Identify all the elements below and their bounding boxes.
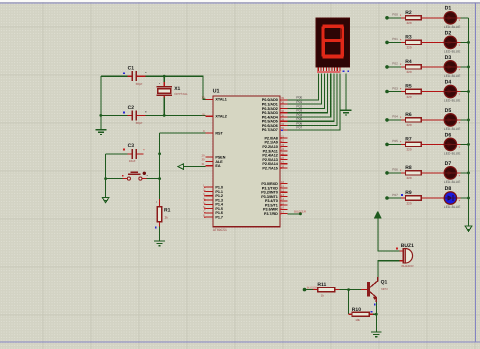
svg-text:P05: P05 (392, 139, 398, 143)
svg-text:220: 220 (407, 176, 412, 180)
svg-text:10uF: 10uF (129, 159, 136, 163)
wire +5V to BUZ1 top pin (378, 218, 400, 251)
wire D7 to rail (460, 172, 468, 174)
wire Q1 emitter to ground (375, 302, 377, 332)
svg-text:D5: D5 (445, 108, 452, 114)
svg-text:U1: U1 (213, 89, 220, 95)
wire BUZ1 bottom pin to Q1 collector (378, 261, 400, 278)
LED D3 LED-BLUE (441, 55, 461, 78)
svg-text:220: 220 (407, 201, 412, 205)
node terminal P01 (385, 41, 389, 45)
crystal X1 (156, 76, 188, 115)
wire R8 to D7 (pin leads) (421, 172, 444, 174)
svg-text:220: 220 (407, 46, 412, 50)
svg-text:P06: P06 (392, 168, 398, 172)
resistor R7 220 (401, 136, 421, 151)
wire R6 to D5 (pin leads) (421, 119, 444, 121)
svg-text:Q1: Q1 (381, 279, 388, 285)
U1 left pins (201, 96, 226, 220)
transistor Q1 NPN (361, 277, 388, 313)
svg-text:RST: RST (215, 131, 223, 135)
wire junction down to R10 (348, 290, 350, 315)
wire net RST: vertical chain to U1 RST (160, 132, 206, 134)
svg-text:10k: 10k (355, 318, 360, 322)
LED D6 LED-BLUE (441, 132, 461, 155)
svg-text:R6: R6 (405, 112, 412, 118)
wire row P05 net (387, 143, 401, 145)
wires display segments to U1 P0 bus (288, 73, 340, 129)
node rail junction (467, 119, 470, 122)
wire D1 to rail (460, 17, 468, 19)
svg-text:17: 17 (281, 210, 285, 214)
resistor R11 1k (305, 282, 340, 297)
node junction switch right (158, 177, 161, 180)
svg-text:31: 31 (201, 162, 205, 166)
svg-text:C2: C2 (128, 105, 135, 111)
node terminal P03 (385, 90, 389, 94)
svg-text:D1: D1 (445, 6, 452, 12)
svg-text:R10: R10 (352, 307, 361, 313)
node junction C1/X1 top (163, 75, 166, 78)
svg-text:220: 220 (407, 95, 412, 99)
wire EA to ground arrow (left) (184, 166, 206, 168)
buzzer BUZ1 (396, 243, 414, 268)
svg-text:220: 220 (407, 21, 412, 25)
wire row P04 net (387, 119, 401, 121)
push-button switch (reset) (106, 172, 160, 181)
svg-text:LED-BLUE: LED-BLUE (444, 180, 461, 184)
svg-text:D6: D6 (445, 132, 452, 138)
svg-text:P01: P01 (392, 37, 398, 41)
svg-text:30pF: 30pF (136, 121, 143, 125)
node terminal P06 (385, 171, 389, 175)
svg-text:R5: R5 (405, 84, 412, 90)
wire R5 to D4 (pin leads) (421, 91, 444, 93)
wire R4 to D3 (pin leads) (421, 66, 444, 68)
node rail junction (467, 143, 470, 146)
ground (earth) below Q1 (371, 332, 382, 337)
svg-text:AT89C51: AT89C51 (213, 228, 227, 232)
node junction switch left (104, 177, 107, 180)
svg-text:XTAL2: XTAL2 (215, 115, 226, 119)
svg-text:220: 220 (407, 70, 412, 74)
svg-text:R2: R2 (405, 10, 412, 16)
resistor R1 2k (vertical) (155, 199, 171, 241)
svg-text:EA: EA (215, 164, 220, 168)
wire row P00 net (387, 17, 401, 19)
ground (earth) below C1/C2 (96, 130, 107, 135)
node terminal P02 (385, 65, 389, 69)
node terminal P04 (385, 118, 389, 122)
node blue markers below display (343, 70, 345, 72)
svg-text:R9: R9 (405, 190, 412, 196)
svg-text:BUZZER: BUZZER (294, 210, 307, 214)
svg-text:P00: P00 (392, 13, 398, 17)
LED D7 LED-BLUE (441, 161, 461, 184)
LED D5 LED-BLUE (441, 108, 461, 131)
resistor R10 10k (349, 307, 377, 322)
power +5V arrow (up) (374, 212, 381, 219)
resistor R6 220 (401, 112, 421, 127)
wire P3.7 to BUZZER net label (288, 213, 301, 215)
svg-text:R7: R7 (405, 136, 412, 142)
svg-text:R3: R3 (405, 34, 412, 40)
node rail junction (467, 197, 470, 200)
wire row P07 net (387, 197, 401, 199)
LED D8 LED-BLUE (441, 186, 461, 209)
svg-text:1k: 1k (321, 293, 325, 297)
ground (earth) below display (341, 110, 352, 115)
ground arrow (down) left (102, 197, 109, 202)
svg-text:D2: D2 (445, 30, 452, 36)
wire R2 to D1 (pin leads) (421, 17, 444, 19)
svg-text:BUZZER: BUZZER (307, 286, 318, 289)
svg-text:BUZ1: BUZ1 (401, 243, 414, 249)
capacitor C2 30pF (123, 105, 146, 125)
svg-text:LED-BLUE: LED-BLUE (444, 50, 461, 54)
wire left vertical C3/switch to ground arrow (105, 154, 107, 198)
wire base net: R11 to Q1 base (339, 289, 361, 291)
svg-text:P07: P07 (296, 126, 302, 130)
svg-text:LED-BLUE: LED-BLUE (444, 127, 461, 131)
svg-text:P04: P04 (392, 115, 398, 119)
wire D8 to rail (460, 197, 468, 199)
node rail junction (467, 66, 470, 69)
wire right rail (LED cathodes) (468, 18, 470, 226)
svg-text:220: 220 (407, 123, 412, 127)
resistor R8 220 (401, 165, 421, 180)
node blue marker at P0.7 pin (281, 129, 283, 131)
node rail junction (467, 172, 470, 175)
wire R7 to D6 (pin leads) (421, 143, 444, 145)
node terminal P07 (385, 196, 389, 200)
svg-text:30pF: 30pF (136, 82, 143, 86)
svg-text:LED-BLUE: LED-BLUE (444, 205, 461, 209)
wire net XTAL2: C2 row to U1 XTAL2 (101, 114, 206, 116)
svg-text:18: 18 (201, 113, 205, 117)
svg-text:P02: P02 (392, 62, 398, 66)
svg-text:CRYSTAL: CRYSTAL (174, 92, 188, 96)
wire D2 to rail (460, 41, 468, 43)
svg-text:P3.7/RD: P3.7/RD (264, 212, 278, 216)
wire R9 to D8 (pin leads) (421, 197, 444, 199)
LED D1 LED-BLUE (441, 6, 461, 29)
svg-text:D3: D3 (445, 55, 452, 61)
svg-text:XTAL1: XTAL1 (215, 98, 226, 102)
node terminal P05 (385, 143, 389, 147)
wire D4 to rail (460, 91, 468, 93)
ground (earth) below R1 (154, 241, 165, 246)
wire row P02 net (387, 66, 401, 68)
wire row P06 net (387, 172, 401, 174)
node junction emitter/R10 (375, 313, 378, 316)
svg-text:220: 220 (407, 148, 412, 152)
ground arrow (left) at EA (178, 164, 184, 170)
node junction R11/R10 (347, 288, 350, 291)
svg-text:C3: C3 (128, 143, 135, 149)
wire D6 to rail (460, 143, 468, 145)
wire R3 to D2 (pin leads) (421, 41, 444, 43)
svg-text:D8: D8 (445, 186, 452, 192)
ground arrow (down) right rail (465, 226, 472, 231)
resistor R4 220 (401, 59, 421, 74)
node rail junction (467, 90, 470, 93)
svg-text:LED-BLUE: LED-BLUE (444, 74, 461, 78)
svg-text:LED-BLUE: LED-BLUE (444, 152, 461, 156)
node terminal R11 left (303, 288, 307, 292)
svg-text:D4: D4 (445, 79, 452, 85)
svg-text:P07: P07 (392, 193, 398, 197)
svg-text:R4: R4 (405, 59, 412, 65)
node terminal P00 (385, 16, 389, 20)
svg-text:R11: R11 (317, 282, 326, 288)
svg-text:R8: R8 (405, 165, 412, 171)
resistor R5 220 (401, 84, 421, 99)
wire net XTAL1: C1 row to U1 XTAL1 (101, 76, 206, 99)
wire D3 to rail (460, 66, 468, 68)
U1 body (213, 96, 280, 227)
svg-text:LED-BLUE: LED-BLUE (444, 25, 461, 29)
svg-text:2k: 2k (165, 216, 169, 220)
svg-text:R1: R1 (164, 207, 171, 213)
wire D5 to rail (460, 119, 468, 121)
node rail junction (467, 41, 470, 44)
svg-text:C1: C1 (128, 66, 135, 72)
wire left vertical to ground (100, 76, 102, 129)
capacitor C1 30pF (123, 66, 146, 86)
svg-text:BUZZER: BUZZER (402, 264, 415, 268)
resistor R9 220 (401, 190, 421, 205)
wire display common to ground (345, 73, 347, 110)
svg-text:28: 28 (281, 164, 285, 168)
node junction C2/X1 bottom (163, 114, 166, 117)
resistor R3 220 (401, 34, 421, 49)
svg-text:LED-BLUE: LED-BLUE (444, 99, 461, 103)
svg-text:P1.7: P1.7 (215, 216, 223, 220)
wire row P01 net (387, 41, 401, 43)
svg-text:P0.7/AD7: P0.7/AD7 (262, 128, 278, 132)
U1 right pins (261, 96, 287, 216)
svg-text:19: 19 (201, 96, 205, 100)
LED D4 LED-BLUE (441, 79, 461, 102)
wire row P03 net (387, 91, 401, 93)
svg-text:P2.7/A15: P2.7/A15 (262, 166, 277, 170)
svg-text:P03: P03 (392, 86, 398, 90)
svg-text:D7: D7 (445, 161, 452, 167)
node junction C3 right (158, 152, 161, 155)
capacitor C3 10uF (106, 143, 146, 163)
7-segment display (common cathode) (316, 18, 350, 73)
LED D2 LED-BLUE (441, 30, 461, 53)
resistor R2 220 (401, 10, 421, 25)
svg-text:NPN: NPN (381, 287, 387, 291)
